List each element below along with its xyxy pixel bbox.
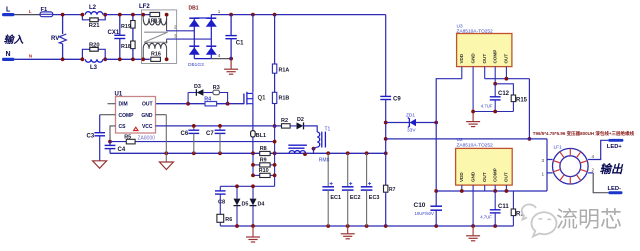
junction bus EC3 bbox=[365, 224, 369, 228]
U1 pin DIM stub bbox=[108, 103, 116, 105]
svg-text:OUT: OUT bbox=[504, 54, 509, 64]
svg-text:1: 1 bbox=[218, 9, 221, 14]
junction R10 left bbox=[251, 174, 255, 178]
capacitor C4 bbox=[105, 142, 126, 154]
resistor R16 bbox=[151, 51, 161, 61]
svg-text:R16: R16 bbox=[151, 51, 161, 57]
wire to LF1 pin3 bbox=[547, 139, 553, 160]
junction bus D4 bbox=[251, 224, 255, 228]
T1 primary winding bbox=[289, 151, 305, 154]
T1 core vertical bbox=[322, 132, 326, 148]
svg-text:4.7UF: 4.7UF bbox=[480, 214, 492, 219]
junction C7 VCC bbox=[218, 124, 222, 128]
fuse F1 bbox=[40, 7, 53, 17]
wire bridge minus to C1 bbox=[211, 58, 231, 60]
svg-text:C7: C7 bbox=[206, 131, 214, 137]
LF2 top winding humps bbox=[143, 18, 166, 25]
svg-text:COMP: COMP bbox=[492, 50, 497, 64]
bridge diode D b bbox=[206, 18, 217, 27]
svg-text:DIM: DIM bbox=[119, 102, 128, 108]
junction bus EC1 bbox=[326, 224, 330, 228]
junction rail aux tap bbox=[312, 147, 316, 151]
svg-text:OUT: OUT bbox=[482, 54, 487, 64]
U2 pin stubs bbox=[462, 185, 507, 226]
svg-text:输入: 输入 bbox=[4, 34, 24, 46]
svg-text:R21: R21 bbox=[89, 23, 100, 29]
U1 pin CS stub bbox=[110, 126, 116, 142]
svg-text:L2: L2 bbox=[89, 5, 97, 11]
wire L terminal to fuse bbox=[15, 14, 41, 16]
wire fuse to node RV bbox=[53, 14, 83, 16]
svg-text:4: 4 bbox=[592, 154, 595, 159]
watermark cat logo bbox=[522, 204, 557, 236]
svg-text:GND: GND bbox=[141, 113, 153, 119]
T1 aux winding tail bbox=[314, 147, 318, 153]
junction L3 right bbox=[103, 57, 107, 61]
junction R18 bottom bbox=[131, 57, 135, 61]
electrolytic capacitor EC3 bbox=[361, 153, 380, 226]
junction rail EC3 bbox=[365, 151, 369, 155]
resistor R21 bbox=[82, 15, 105, 30]
wire BL1 to sense node bbox=[252, 137, 254, 153]
bridge diode D c bbox=[189, 46, 200, 55]
svg-text:N: N bbox=[6, 51, 11, 58]
op-amp U1 controller body bbox=[115, 91, 156, 133]
common-mode choke LF2 body bbox=[139, 4, 177, 64]
svg-text:DB1: DB1 bbox=[189, 6, 199, 12]
svg-text:L: L bbox=[29, 9, 32, 15]
svg-text:U2: U2 bbox=[457, 137, 463, 143]
diode D2 bbox=[290, 117, 304, 130]
resistor R7 bbox=[384, 153, 396, 226]
svg-text:C12: C12 bbox=[498, 91, 510, 97]
wire VCC rail bbox=[156, 125, 282, 127]
svg-text:3: 3 bbox=[542, 158, 545, 163]
zener D5 bbox=[234, 186, 249, 226]
resistor R8 bbox=[260, 146, 270, 155]
wire ground bus bbox=[220, 225, 513, 227]
LF2 bottom winding bbox=[143, 49, 166, 60]
junction U2 VDD bbox=[460, 189, 464, 193]
junction gnd link left bbox=[471, 110, 475, 114]
junction R9 right bbox=[273, 163, 277, 167]
junction rail C7 bbox=[218, 151, 222, 155]
junction R5 line end bbox=[273, 140, 277, 144]
svg-text:R10: R10 bbox=[259, 168, 269, 174]
svg-text:U3: U3 bbox=[457, 24, 463, 30]
junction rail C6 bbox=[192, 151, 196, 155]
svg-text:R9: R9 bbox=[260, 158, 267, 164]
junction CX1 top bbox=[118, 13, 122, 17]
resistor R5 bbox=[124, 134, 135, 144]
C11/R1 loop bbox=[511, 191, 524, 226]
junction bus U2 GND bbox=[471, 224, 475, 228]
svg-text:流明芯: 流明芯 bbox=[556, 207, 622, 232]
junction L2 left bbox=[81, 13, 85, 17]
IC U2 ZA8510A-TO252 bbox=[456, 137, 513, 185]
port N (input neutral terminal) bbox=[2, 51, 15, 61]
svg-text:VCC: VCC bbox=[142, 124, 153, 130]
ground under D4 bbox=[246, 237, 260, 242]
junction bridge minus / C1 bbox=[229, 57, 233, 61]
junction bus C11 bbox=[493, 224, 497, 228]
U1 pin COMP stub bbox=[100, 114, 116, 116]
svg-text:10UF/50V: 10UF/50V bbox=[415, 211, 434, 216]
capacitor C6 bbox=[181, 126, 200, 153]
junction gnd link C12 bbox=[493, 110, 497, 114]
svg-text:ZD1: ZD1 bbox=[406, 113, 415, 119]
capacitor C12 bbox=[481, 84, 510, 112]
sense columns bbox=[253, 126, 275, 186]
svg-text:LF2: LF2 bbox=[139, 4, 150, 10]
LF2 top winding bbox=[143, 15, 166, 31]
capacitor C1 bbox=[225, 15, 244, 69]
junction LF2 bottom right bbox=[165, 57, 169, 61]
svg-text:L3: L3 bbox=[90, 65, 98, 71]
junction C9 output wire bbox=[384, 137, 388, 141]
capacitor C9 bbox=[380, 15, 401, 154]
svg-text:VDD: VDD bbox=[459, 172, 464, 182]
VDD feed column bbox=[436, 79, 462, 226]
junction rail U1 ground bbox=[164, 151, 168, 155]
junction U2 OUT2 bbox=[505, 189, 509, 193]
wire D2 to aux winding bbox=[304, 126, 318, 132]
junction bus EC2 bbox=[346, 224, 350, 228]
resistor R1A bbox=[272, 15, 289, 74]
port L (input line terminal) bbox=[2, 7, 15, 17]
wire C12 ground link bbox=[473, 111, 513, 113]
svg-text:GND: GND bbox=[470, 171, 475, 182]
resistor R18 bbox=[121, 41, 135, 59]
toroid inductor LF1 bbox=[553, 145, 589, 184]
junction rail EC1 bbox=[326, 151, 330, 155]
junction gate branch right bbox=[226, 102, 230, 106]
transistor Q1 (MOSFET) bbox=[244, 92, 266, 105]
electrolytic capacitor EC2 bbox=[342, 153, 361, 226]
svg-text:N: N bbox=[29, 54, 33, 60]
junction VDD column U2 wire bbox=[434, 189, 438, 193]
svg-text:RV: RV bbox=[51, 36, 59, 42]
junction rail primary end bbox=[303, 152, 307, 156]
svg-text:R6: R6 bbox=[225, 217, 232, 223]
svg-text:R15: R15 bbox=[516, 98, 528, 104]
junction R19 top bbox=[131, 13, 135, 17]
C12/R15 loop bbox=[495, 84, 527, 112]
svg-text:R1B: R1B bbox=[279, 96, 290, 102]
bridge DB1 frame bbox=[194, 15, 211, 59]
ground under U2 GND bbox=[466, 236, 480, 241]
svg-text:33V: 33V bbox=[407, 127, 416, 133]
wire output feed bbox=[386, 138, 547, 140]
ferrite bead BL1 bbox=[251, 131, 266, 140]
capacitor CX1 bbox=[108, 15, 126, 60]
junction OUT drop bbox=[528, 137, 532, 141]
svg-text:C11: C11 bbox=[498, 204, 509, 210]
svg-text:EC1: EC1 bbox=[330, 195, 341, 201]
junction LF2 bottom left bbox=[141, 57, 145, 61]
svg-text:R8: R8 bbox=[260, 146, 267, 152]
T1 core horizontal bbox=[288, 145, 307, 148]
junction CS node bbox=[108, 140, 112, 144]
zener D4 bbox=[250, 186, 265, 226]
junction R9 left bbox=[251, 163, 255, 167]
junction R1A column bbox=[273, 13, 277, 17]
junction bus D5 bbox=[235, 224, 239, 228]
wire L3 to LF2 bottom bbox=[105, 58, 150, 60]
wire LF1 pin2 to LED- bbox=[588, 173, 608, 193]
svg-text:R1A: R1A bbox=[279, 68, 290, 74]
wire N terminal to node RV bbox=[15, 58, 83, 60]
bridge diode D a bbox=[189, 18, 200, 27]
wire U3 OUT drop bbox=[528, 79, 530, 139]
wire LF2 pin2 to bridge bbox=[167, 30, 195, 32]
svg-text:EC2: EC2 bbox=[350, 195, 361, 201]
svg-text:OUT: OUT bbox=[504, 172, 509, 182]
junction U3 OUT2 bbox=[505, 77, 509, 81]
junction rail sense node bbox=[251, 151, 255, 155]
IC U3 ZA8510A-TO252 bbox=[457, 24, 512, 67]
wire Q1 source to BL1 bbox=[252, 104, 254, 131]
bridge diode D d bbox=[206, 46, 217, 55]
junction D4 top bbox=[251, 184, 255, 188]
svg-text:2: 2 bbox=[592, 167, 595, 172]
wire LF2 pin3 to bridge bbox=[167, 38, 212, 40]
ground under U3 GND bbox=[466, 122, 480, 127]
ground under EC2 bbox=[341, 234, 355, 239]
junction L2 right bbox=[103, 13, 107, 17]
svg-text:C4: C4 bbox=[118, 147, 126, 153]
junction L3 left bbox=[81, 57, 85, 61]
junction rail R8 right bbox=[273, 151, 277, 155]
svg-text:C3: C3 bbox=[87, 134, 95, 140]
capacitor C8 bbox=[215, 186, 226, 214]
svg-text:T1: T1 bbox=[325, 127, 331, 133]
inductor L2 winding bbox=[85, 12, 103, 15]
watermark text 流明芯 bbox=[556, 207, 623, 233]
wire DC+ bus bbox=[211, 14, 385, 16]
svg-text:C8: C8 bbox=[218, 200, 225, 206]
junction CX1 bottom bbox=[118, 57, 122, 61]
svg-text:R18: R18 bbox=[121, 44, 131, 50]
junction bus R7 bbox=[384, 224, 388, 228]
resistor R19 bbox=[121, 15, 135, 41]
resistor R17 bbox=[150, 12, 161, 24]
ground stub U2 bbox=[472, 226, 474, 235]
svg-text:D3: D3 bbox=[194, 84, 201, 90]
svg-text:1: 1 bbox=[542, 171, 545, 176]
resistor R9 bbox=[253, 158, 275, 167]
resistor R4 bbox=[204, 97, 216, 106]
svg-text:CX1: CX1 bbox=[108, 30, 120, 36]
svg-text:VDD: VDD bbox=[459, 53, 464, 63]
svg-text:OUT: OUT bbox=[482, 172, 487, 182]
junction RV top bbox=[61, 13, 65, 17]
ground stub EC2 bbox=[347, 226, 349, 233]
wire sense rail bbox=[110, 152, 386, 154]
svg-text:R4: R4 bbox=[204, 97, 211, 103]
svg-text:2: 2 bbox=[174, 25, 177, 30]
svg-text:T96/5*4.78*5.96 变压器800UH 漆包线+三: T96/5*4.78*5.96 变压器800UH 漆包线+三层绝缘线 bbox=[533, 130, 635, 137]
LF2 core bbox=[144, 32, 167, 42]
diode D3 bbox=[188, 84, 213, 104]
LF2 pin3 riser bbox=[166, 39, 168, 43]
wire Q1 drain bbox=[252, 15, 254, 93]
svg-text:D5: D5 bbox=[242, 201, 249, 207]
junction rail R7 bbox=[384, 151, 388, 155]
junction U2 COMP C11 bbox=[493, 189, 497, 193]
capacitor C3 bbox=[87, 115, 106, 161]
junction C6 VCC bbox=[192, 124, 196, 128]
svg-text:R7: R7 bbox=[389, 187, 396, 193]
junction R10 right bbox=[273, 174, 277, 178]
ground stub D4 bbox=[252, 226, 254, 237]
capacitor C7 bbox=[206, 126, 225, 153]
svg-text:DB1G3: DB1G3 bbox=[188, 62, 204, 68]
wire LF1 pin4 to LED+ bbox=[588, 140, 608, 159]
resistor R3 bbox=[213, 85, 228, 104]
junction COMP C12 bbox=[493, 82, 497, 86]
resistor R20 bbox=[82, 43, 105, 60]
svg-text:L: L bbox=[6, 7, 11, 14]
svg-text:COMP: COMP bbox=[119, 113, 135, 119]
svg-text:OUT: OUT bbox=[142, 102, 153, 108]
resistor R6 bbox=[217, 214, 232, 226]
port LED- bbox=[608, 186, 623, 194]
wire U3 OUT run bbox=[485, 78, 530, 80]
svg-text:ZA8510A-TO252: ZA8510A-TO252 bbox=[457, 142, 494, 148]
junction R1B VCC rail bbox=[273, 124, 277, 128]
svg-text:GND: GND bbox=[470, 53, 475, 64]
junction gate branch left bbox=[186, 102, 190, 106]
resistor R10 bbox=[253, 168, 275, 177]
junction RV bottom bbox=[61, 57, 65, 61]
svg-text:ZA8000: ZA8000 bbox=[138, 136, 156, 142]
wire clamp node bbox=[220, 185, 274, 187]
wire U1 OUT to Q1 gate bbox=[156, 103, 244, 105]
svg-text:输出: 输出 bbox=[600, 163, 624, 176]
junction ZD1 VDD column bbox=[434, 121, 438, 125]
varistor RV bbox=[51, 15, 66, 60]
svg-text:3: 3 bbox=[174, 34, 177, 39]
wire to LF1 pin1 bbox=[547, 173, 553, 191]
wire L2 to LF2 top bbox=[105, 14, 150, 16]
ground under U1 GND bbox=[159, 162, 173, 170]
U1 ground column bbox=[165, 115, 167, 162]
capacitor C10 bbox=[414, 202, 443, 216]
svg-text:CS: CS bbox=[119, 124, 127, 130]
wire U2 output run bbox=[436, 190, 547, 192]
junction bus C10 bbox=[434, 224, 438, 228]
zener ZD1 bbox=[386, 113, 437, 134]
T1 aux winding bbox=[317, 132, 320, 147]
junction Q1 drain column bbox=[251, 13, 255, 17]
svg-text:C10: C10 bbox=[414, 202, 426, 209]
svg-text:D2: D2 bbox=[297, 117, 304, 123]
inductor L3 winding bbox=[85, 59, 103, 62]
junction rail EC2 bbox=[346, 151, 350, 155]
capacitor C11 bbox=[480, 191, 509, 226]
svg-text:R3: R3 bbox=[213, 85, 220, 91]
svg-text:COMP: COMP bbox=[492, 168, 497, 182]
resistor R1B bbox=[272, 73, 289, 126]
junction LF2 top left bbox=[141, 13, 145, 17]
ground under C1 bbox=[224, 69, 238, 74]
svg-text:Q1: Q1 bbox=[258, 96, 267, 102]
svg-text:C9: C9 bbox=[393, 96, 401, 102]
junction LF2 top right bbox=[165, 13, 169, 17]
electrolytic capacitor EC1 bbox=[322, 153, 341, 226]
U1 pin GND stub bbox=[156, 114, 167, 116]
svg-text:LF1: LF1 bbox=[554, 145, 563, 151]
svg-text:R19: R19 bbox=[121, 24, 131, 30]
resistor R2 bbox=[281, 118, 290, 128]
svg-text:BL1: BL1 bbox=[256, 133, 266, 139]
port LED+ bbox=[607, 139, 624, 150]
svg-text:4.7UF: 4.7UF bbox=[481, 104, 493, 109]
svg-text:EC3: EC3 bbox=[369, 195, 380, 201]
svg-text:D4: D4 bbox=[258, 201, 265, 207]
svg-text:LED+: LED+ bbox=[607, 144, 623, 150]
junction C1 top bbox=[229, 13, 233, 17]
LF2 bottom winding humps bbox=[143, 43, 166, 49]
svg-text:R2: R2 bbox=[281, 118, 288, 124]
U3 pin stubs bbox=[462, 67, 507, 122]
junction D5 top bbox=[235, 184, 239, 188]
svg-text:C6: C6 bbox=[181, 131, 189, 137]
wire R5 line bbox=[110, 141, 275, 143]
svg-text:R5: R5 bbox=[124, 134, 131, 140]
svg-text:4: 4 bbox=[218, 53, 221, 58]
svg-text:C1: C1 bbox=[236, 41, 244, 47]
ground under C3 bbox=[93, 161, 107, 169]
junction C9 ZD1 wire bbox=[384, 121, 388, 125]
